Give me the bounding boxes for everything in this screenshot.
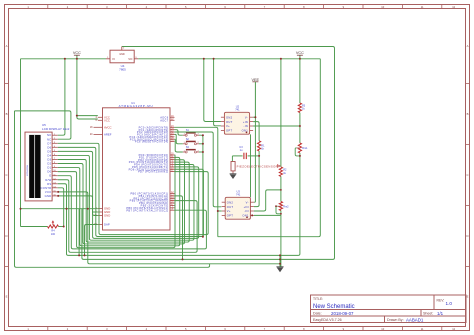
wire PC0 long loop bbox=[175, 127, 218, 236]
svg-text:AVCC: AVCC bbox=[104, 125, 112, 129]
svg-text:V-: V- bbox=[245, 115, 248, 119]
junction at 217.8,211.0 bbox=[217, 210, 219, 212]
pushbutton S3 bbox=[185, 151, 187, 153]
wire buttons common to ground rail bbox=[199, 135, 203, 237]
microcontroller U1 ATMEGA328P-MU bbox=[103, 108, 171, 230]
svg-text:1/1: 1/1 bbox=[437, 311, 444, 316]
wire LCD D1 to U1 PD1 bbox=[58, 157, 180, 245]
wire VIN rail to 7805 bbox=[21, 58, 107, 60]
junction at 280.0,259.4 bbox=[279, 258, 281, 260]
svg-text:2018-09-07: 2018-09-07 bbox=[331, 311, 354, 316]
junction at 203.8,58.8 bbox=[203, 58, 205, 60]
junction at 87.8,208.7 bbox=[87, 208, 89, 210]
junction at 84.5,255.4 bbox=[84, 254, 86, 256]
junction at 64.9,58.8 bbox=[64, 58, 66, 60]
svg-text:V-: V- bbox=[246, 200, 249, 204]
wire LCD RS to ground rail bbox=[58, 184, 280, 256]
wire PC1 to S1 bbox=[175, 130, 183, 136]
junction at 202.9,236.7 bbox=[202, 236, 204, 238]
pushbutton S1 bbox=[185, 134, 187, 136]
wire GND left drop to bottom rail bbox=[15, 111, 210, 267]
svg-text:RS: RS bbox=[47, 182, 51, 186]
junction at 202.9,135.2 bbox=[202, 134, 204, 136]
capacitor C3 1u bbox=[232, 155, 242, 157]
svg-text:NC: NC bbox=[47, 133, 51, 137]
svg-text:D2: D2 bbox=[47, 162, 51, 166]
pushbutton S2 bbox=[185, 143, 187, 145]
junction at 79.1,255.4 bbox=[78, 254, 80, 256]
svg-text:D7: D7 bbox=[47, 141, 51, 145]
op-amp U2 741 bbox=[224, 112, 249, 134]
wire LCD GND comb to U1 GND pins bbox=[58, 196, 98, 216]
svg-text:D: D bbox=[5, 234, 7, 238]
wire VO rail right corner loop to PC0 bbox=[218, 59, 320, 237]
wire U2 -IN to R3/Rm1 junction bbox=[253, 125, 300, 127]
svg-text:+IN: +IN bbox=[243, 120, 248, 124]
svg-text:A: A bbox=[467, 44, 469, 48]
svg-text:A: A bbox=[6, 44, 8, 48]
junction at 280.0,255.4 bbox=[279, 254, 281, 256]
piezoelectric sensor bbox=[231, 156, 233, 162]
svg-text:REV:: REV: bbox=[437, 299, 445, 303]
svg-text:E: E bbox=[6, 294, 8, 298]
svg-text:D1: D1 bbox=[47, 166, 51, 170]
wire U3 ON1 to VCC column bbox=[254, 214, 281, 216]
junction at 255.4,117.2 bbox=[254, 116, 256, 118]
svg-text:7805: 7805 bbox=[119, 67, 126, 71]
svg-text:OPT: OPT bbox=[226, 129, 232, 133]
resistor R3 1k bbox=[299, 59, 301, 103]
svg-text:VCC: VCC bbox=[73, 51, 81, 55]
svg-text:LCD1602A: LCD1602A bbox=[26, 165, 29, 176]
LCD display U5 bbox=[25, 132, 52, 201]
VCC column to R2 bbox=[280, 59, 282, 167]
svg-text:100: 100 bbox=[51, 233, 56, 236]
svg-text:ON2: ON2 bbox=[227, 200, 234, 204]
wire 7805 ground top rail bbox=[122, 47, 335, 260]
svg-text:Drawn By:: Drawn By: bbox=[387, 318, 404, 322]
resistor Rm2 trimmer bbox=[279, 202, 282, 211]
wire DAP down to ground rail bbox=[85, 225, 98, 256]
svg-text:VI: VI bbox=[112, 57, 115, 61]
resistor R1 1k bbox=[258, 141, 261, 151]
resistor Rm1 trimmer bbox=[298, 143, 301, 153]
svg-text:V+: V+ bbox=[226, 124, 230, 128]
wire drop to LCD pin1 bbox=[58, 59, 65, 135]
op-amp U3 741 bbox=[225, 197, 250, 219]
svg-text:GND: GND bbox=[104, 214, 110, 218]
wire PC5 to S3 bbox=[175, 139, 183, 152]
svg-text:NC: NC bbox=[47, 137, 51, 141]
wire PC2 to U3 OUT bbox=[175, 132, 222, 207]
svg-text:PIEZOELECTRICSENSOR: PIEZOELECTRICSENSOR bbox=[237, 164, 278, 168]
junction at 299.9,126.0 bbox=[299, 125, 301, 127]
wire LCD D2 to U1 PD2 bbox=[58, 160, 185, 244]
svg-text:CONTR: CONTR bbox=[41, 186, 52, 190]
svg-text:D6: D6 bbox=[47, 145, 51, 149]
svg-text:PB7 (PCINT7/XTAL2/TOSC2): PB7 (PCINT7/XTAL2/TOSC2) bbox=[126, 208, 168, 212]
wire LCD D5 to U1 PD5 bbox=[58, 151, 199, 238]
svg-text:E: E bbox=[49, 174, 51, 178]
svg-text:OUT: OUT bbox=[227, 205, 234, 209]
resistor R2 1k bbox=[279, 167, 282, 177]
wire VO rail drop to U2 pin2 bbox=[204, 59, 221, 122]
svg-text:R/W: R/W bbox=[45, 178, 51, 182]
power flag VCC right bbox=[299, 55, 301, 59]
svg-text:-IN: -IN bbox=[244, 124, 248, 128]
wire LCD D6 to U1 PD6 bbox=[58, 147, 204, 236]
wire LCD D3 to U1 PD3 bbox=[58, 159, 189, 242]
wire PC3 to S2 bbox=[175, 134, 183, 143]
junction at 58.2,195.9 bbox=[57, 195, 59, 197]
svg-text:VCC: VCC bbox=[104, 118, 110, 122]
junction at 202.9,143.8 bbox=[202, 143, 204, 145]
wire VO rail drop to U2 pin3 bbox=[214, 59, 221, 126]
wire PB1 to lower rail bbox=[175, 196, 183, 260]
wire lower rail from left bbox=[82, 209, 280, 260]
svg-text:Sheet:: Sheet: bbox=[423, 312, 433, 316]
svg-text:741: 741 bbox=[235, 108, 240, 112]
svg-text:C: C bbox=[466, 173, 468, 177]
power flag VCC left bbox=[76, 55, 78, 59]
svg-text:B: B bbox=[467, 112, 469, 116]
svg-text:1.0: 1.0 bbox=[446, 301, 453, 306]
svg-text:D: D bbox=[466, 234, 468, 238]
svg-text:D4: D4 bbox=[47, 154, 51, 158]
junction at 66.5,208.7 bbox=[66, 208, 68, 210]
svg-text:-IN: -IN bbox=[244, 209, 248, 213]
svg-text:B: B bbox=[6, 112, 8, 116]
wire U3 pin3 to PC0 column bbox=[218, 210, 222, 212]
svg-text:OPT: OPT bbox=[227, 214, 233, 218]
wire LCD D0 to U1 PD0 bbox=[58, 155, 175, 248]
ground node bbox=[279, 255, 281, 264]
regulator U4 7805 bbox=[110, 50, 134, 63]
svg-text:AREF: AREF bbox=[104, 133, 112, 137]
svg-text:D0: D0 bbox=[47, 170, 51, 174]
svg-text:PC6 (RESET/PCINT14): PC6 (RESET/PCINT14) bbox=[135, 140, 169, 144]
wire R4 branch bbox=[21, 226, 48, 228]
svg-text:AABAD1: AABAD1 bbox=[406, 318, 424, 323]
wire LCD D7 to U1 PD7 bbox=[58, 143, 208, 234]
svg-text:E: E bbox=[467, 294, 469, 298]
wire R4 to CONTR column bbox=[59, 226, 64, 228]
wire U2 +IN down to R1 bbox=[253, 122, 259, 141]
svg-text:ON2: ON2 bbox=[226, 115, 233, 119]
svg-text:OUT: OUT bbox=[226, 120, 233, 124]
svg-text:GND: GND bbox=[45, 194, 52, 198]
svg-text:VCC: VCC bbox=[45, 190, 51, 194]
junction at 182.5,259.4 bbox=[182, 258, 184, 260]
wire drop to ground rail bbox=[78, 209, 80, 256]
junction at 63.7,226.5 bbox=[63, 226, 65, 228]
svg-text:D5: D5 bbox=[47, 149, 51, 153]
svg-text:LCD DISPLAY 16x2: LCD DISPLAY 16x2 bbox=[42, 127, 70, 131]
ground symbol piezo bbox=[230, 173, 237, 175]
svg-text:V+: V+ bbox=[227, 209, 231, 213]
svg-text:VO: VO bbox=[128, 57, 133, 61]
wire LCD D4 to U1 PD4 bbox=[58, 155, 194, 240]
svg-text:PD7 (PCINT23/AIN1): PD7 (PCINT23/AIN1) bbox=[138, 170, 169, 174]
svg-text:D3: D3 bbox=[47, 158, 51, 162]
junction at 20.5,208.7 bbox=[20, 208, 22, 210]
svg-text:Rm2: Rm2 bbox=[283, 205, 289, 208]
svg-text:ATMEGA328P-MU: ATMEGA328P-MU bbox=[119, 104, 154, 108]
wire VEE to U2 V- and U3 V+ bbox=[253, 116, 255, 118]
svg-text:DAP: DAP bbox=[104, 223, 110, 227]
junction at 280.0,263.8 bbox=[279, 263, 281, 265]
resistor R4 100 bbox=[48, 225, 59, 228]
svg-text:New Schematic: New Schematic bbox=[313, 304, 355, 310]
svg-text:C: C bbox=[5, 173, 7, 177]
wire VCC left drop bbox=[20, 59, 22, 227]
svg-text:TITLE:: TITLE: bbox=[313, 297, 323, 301]
junction at 76.9,58.8 bbox=[76, 58, 78, 60]
svg-text:EasyEDA V5.7.26: EasyEDA V5.7.26 bbox=[313, 318, 342, 322]
svg-text:VCC: VCC bbox=[296, 51, 304, 55]
svg-text:741: 741 bbox=[236, 193, 241, 197]
junction at 299.9,58.8 bbox=[299, 58, 301, 60]
svg-text:ON1: ON1 bbox=[242, 214, 249, 218]
junction at 76.9,115.6 bbox=[76, 115, 78, 117]
svg-text:Date:: Date: bbox=[313, 312, 322, 316]
junction at 213.6,58.8 bbox=[213, 58, 215, 60]
junction at 299.9,155.9 bbox=[299, 155, 301, 157]
wire GND loop upper-left to LCD pin2 bbox=[15, 111, 71, 139]
wire LCD VCC down to lower rail bbox=[58, 192, 280, 264]
wire drop to U1 VCC pins bbox=[76, 59, 78, 116]
wire LCD R/W to PB3 bbox=[58, 180, 197, 253]
svg-text:S3: S3 bbox=[186, 145, 190, 149]
junction at 202.9,152.0 bbox=[202, 151, 204, 153]
wire U2 bottom pin to U3 top pin bbox=[250, 134, 252, 197]
junction at 252.2,215.4 bbox=[251, 214, 253, 216]
svg-text:ADC7: ADC7 bbox=[160, 118, 168, 122]
wire LCD E to PB7 bbox=[58, 176, 207, 249]
wire U3 -IN loop to R2/Rm2 node bbox=[254, 190, 281, 211]
junction at 280.9,58.8 bbox=[280, 58, 282, 60]
wire R1 bottom to U3 +IN bbox=[254, 151, 259, 207]
junction at 259.1,155.9 bbox=[258, 155, 260, 157]
LCD pins bbox=[52, 134, 58, 136]
svg-text:Rm1: Rm1 bbox=[302, 147, 308, 150]
title block bbox=[311, 295, 467, 323]
junction at 58.2,191.9 bbox=[57, 191, 59, 193]
svg-text:S2: S2 bbox=[186, 137, 190, 141]
svg-text:+IN: +IN bbox=[244, 205, 249, 209]
svg-text:GND: GND bbox=[119, 53, 125, 56]
wire VCC rail to U1 GND1 row bbox=[21, 208, 98, 210]
wire LCD CONTR to R4 bbox=[58, 188, 64, 227]
wire 7805 output rail bbox=[138, 58, 320, 60]
